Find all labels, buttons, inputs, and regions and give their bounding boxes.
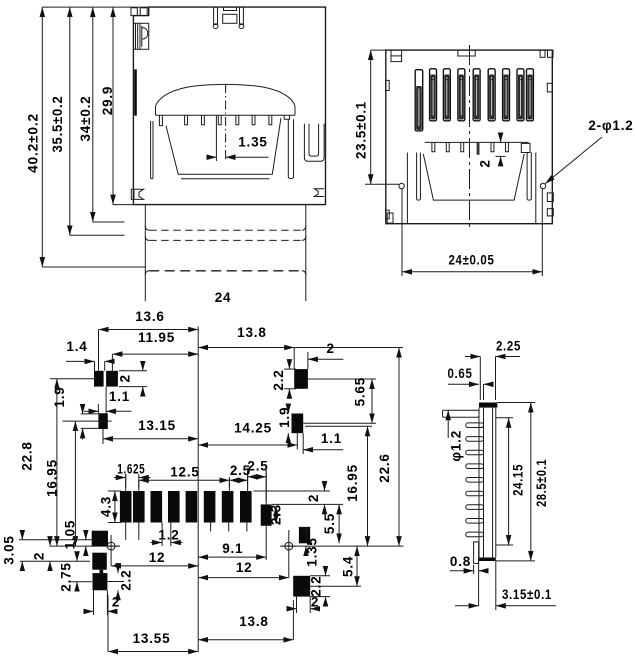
dim 2 bottom right: [288, 595, 319, 614]
pad MR-B: [293, 576, 310, 597]
dim 5.5: [322, 504, 339, 543]
slot teeth: [185, 115, 272, 125]
svg-text:24.15: 24.15: [511, 464, 526, 496]
svg-text:24: 24: [215, 290, 232, 305]
dim 0.65: [448, 366, 492, 400]
rear view outline: [386, 50, 553, 224]
pad row extension stubs: [126, 468, 267, 540]
svg-text:23.5±0.1: 23.5±0.1: [353, 101, 368, 159]
rear view contact slots (9): [415, 69, 533, 131]
card slot top line: [156, 114, 296, 116]
svg-text:24±0.05: 24±0.05: [449, 253, 495, 268]
svg-text:2: 2: [326, 341, 334, 356]
svg-text:2.3: 2.3: [269, 504, 284, 525]
dim 1.625: [114, 462, 151, 489]
rear view left edge bumps: [386, 80, 389, 218]
svg-text:1.9: 1.9: [52, 386, 67, 407]
svg-text:34±0.2: 34±0.2: [78, 96, 93, 142]
dim 0.8: [450, 554, 487, 574]
footprint datum centerline: [197, 327, 199, 653]
svg-text:2.75: 2.75: [59, 562, 74, 591]
pad MR-A: [299, 527, 310, 543]
dim 3.15±0.1: [455, 587, 556, 606]
dim 35.5±0.2: [50, 7, 125, 235]
rear view top-left step: [391, 50, 402, 62]
svg-text:13.6: 13.6: [135, 309, 164, 324]
svg-text:2: 2: [118, 374, 133, 382]
svg-text:1.2: 1.2: [158, 528, 179, 543]
svg-text:1.35: 1.35: [305, 537, 320, 566]
svg-text:2-φ1.2: 2-φ1.2: [588, 118, 633, 133]
rear card opening band with teeth: [425, 142, 530, 154]
dim 16.95 right: [305, 426, 372, 546]
dome arch: [156, 84, 296, 115]
rear view right edge bumps: [547, 83, 553, 216]
svg-text:13.8: 13.8: [237, 325, 266, 340]
right locating hole crosshair: [281, 530, 297, 550]
side view top tab: [443, 410, 480, 417]
dim 2 top right: [308, 341, 343, 369]
dim 12 left: [111, 550, 198, 566]
svg-text:2.25: 2.25: [496, 339, 521, 354]
dim 1.1 left: [84, 387, 132, 416]
left pads column P1 P2 P3: [92, 531, 108, 591]
dim 9.1: [198, 526, 266, 560]
svg-text:4.3: 4.3: [99, 496, 114, 517]
svg-text:1.1: 1.1: [321, 431, 342, 446]
svg-text:13.55: 13.55: [133, 631, 171, 646]
dim 24 (card width): [215, 290, 232, 305]
dim 16.95 left: [44, 421, 111, 546]
rear view top notch: [458, 50, 475, 56]
bottom-left corner clip: [131, 189, 143, 199]
dim 24±0.05: [402, 189, 542, 276]
svg-text:28.5±0.1: 28.5±0.1: [534, 459, 549, 507]
dim 13.6: [99, 309, 199, 371]
dim 2 left (hole row to P2 row): [32, 538, 51, 571]
svg-text:1.625: 1.625: [117, 462, 145, 477]
dim 1.05: [63, 520, 86, 555]
svg-text:1.4: 1.4: [66, 339, 87, 354]
dim 2 right mid: [253, 483, 343, 514]
svg-text:2: 2: [478, 159, 493, 167]
hole right (rear): [540, 183, 545, 188]
rear centerline: [469, 45, 471, 229]
svg-text:1.1: 1.1: [109, 389, 130, 404]
svg-text:12: 12: [236, 560, 253, 575]
dim 2.75: [59, 553, 93, 592]
rear view top-right tabs: [540, 50, 553, 57]
dim 24.15: [496, 418, 526, 545]
right U-slot feature: [304, 124, 324, 161]
left edge thick bar: [134, 69, 137, 115]
dim 2.5 a: [229, 463, 251, 488]
dim 12.5: [139, 465, 230, 489]
rear inner walls: [407, 153, 535, 224]
svg-text:40.2±0.2: 40.2±0.2: [25, 113, 40, 173]
top latch detail: [213, 7, 244, 29]
center pad row (8 pads): [120, 491, 252, 523]
side view bottom peg: [474, 542, 479, 564]
dim 2.5 b: [247, 459, 268, 501]
svg-text:14.25: 14.25: [234, 421, 272, 436]
footprint hole row line: [50, 545, 404, 547]
bottom-right corner clip: [314, 189, 324, 197]
svg-text:2: 2: [112, 595, 120, 610]
rear trapezoid bars: [417, 153, 532, 201]
dim 1.35 right: [305, 529, 320, 567]
rear view bottom-left foot: [387, 213, 393, 223]
dim 22.8: [20, 379, 94, 546]
svg-text:φ1.2: φ1.2: [449, 430, 464, 462]
front view outline: [133, 7, 325, 205]
svg-text:16.95: 16.95: [44, 459, 59, 497]
dim 34±0.2: [78, 7, 125, 222]
dim 22.6: [377, 348, 399, 547]
label 2-φ1.2 with leader: [545, 118, 633, 184]
dim 14.25: [198, 421, 297, 450]
svg-text:5.5: 5.5: [322, 513, 337, 534]
hole left (rear): [399, 183, 404, 188]
dim 1.4: [66, 339, 113, 371]
svg-text:35.5±0.2: 35.5±0.2: [50, 96, 65, 153]
svg-text:9.1: 9.1: [222, 541, 243, 556]
pad T1R: [294, 369, 308, 389]
dim 3.05: [2, 531, 91, 571]
svg-text:5.65: 5.65: [353, 377, 368, 406]
left locating hole crosshair: [104, 535, 120, 566]
dim 5.4: [310, 546, 361, 586]
svg-text:2.5: 2.5: [247, 459, 268, 474]
svg-text:3.05: 3.05: [2, 535, 17, 564]
dim 2.25: [465, 339, 521, 401]
svg-text:22.8: 22.8: [20, 441, 35, 470]
dim 13.8 top: [198, 325, 403, 369]
dim 4.3: [99, 491, 121, 523]
dim 12 right: [198, 546, 289, 578]
pad T2R: [292, 414, 304, 434]
footprint pad row line A (pad1 row): [19, 539, 92, 541]
svg-text:2.2: 2.2: [271, 369, 286, 390]
svg-text:2: 2: [306, 494, 321, 502]
svg-text:16.95: 16.95: [345, 464, 360, 502]
card trapezoid: [166, 118, 281, 179]
svg-text:2: 2: [32, 552, 47, 560]
dim 40.2±0.2: [25, 7, 149, 267]
left slot wall: [151, 115, 163, 179]
svg-text:3.15±0.1: 3.15±0.1: [502, 587, 552, 602]
svg-text:13.15: 13.15: [138, 418, 176, 433]
side view bottom band: [479, 558, 496, 562]
dim 13.55: [108, 595, 198, 652]
svg-text:29.9: 29.9: [100, 86, 115, 115]
dim 2.2 left: [107, 565, 133, 600]
dim 1.9 right: [277, 405, 292, 443]
side view tail: [479, 561, 496, 610]
svg-text:11.95: 11.95: [138, 330, 175, 345]
svg-text:12: 12: [149, 550, 166, 565]
dim 1.35 centerline: [207, 84, 269, 162]
svg-text:5.4: 5.4: [340, 556, 355, 577]
dim 1.9 left: [52, 386, 100, 439]
side view body walls: [479, 408, 496, 558]
dim φ1.2: [448, 410, 463, 461]
dim 2.2 top right: [271, 360, 296, 397]
write-protect switch detail: [134, 23, 149, 49]
svg-text:13.8: 13.8: [239, 614, 268, 629]
dim 2 (pad T1L height): [118, 362, 148, 395]
svg-text:1.9: 1.9: [277, 407, 292, 428]
dim 29.9: [100, 7, 133, 205]
dim 28.5±0.1: [496, 403, 549, 561]
dim 5.65: [303, 377, 376, 423]
pad T2L: [98, 413, 107, 429]
side view contact nubs (9): [466, 423, 484, 537]
dim 11.95: [112, 330, 198, 371]
svg-text:2: 2: [311, 595, 319, 610]
dim 1.1 right: [303, 431, 343, 454]
dim 2 (rear tooth depth): [478, 134, 506, 168]
dim 13.15: [103, 418, 198, 444]
dim 2 bottom left: [85, 590, 120, 615]
right slot wall: [284, 115, 293, 178]
pad T1L (two cells): [94, 371, 118, 387]
svg-text:12.5: 12.5: [170, 465, 199, 480]
svg-text:1.35: 1.35: [238, 134, 267, 149]
svg-text:22.6: 22.6: [377, 453, 392, 482]
rear card trapezoid: [423, 154, 524, 200]
side view top cap: [479, 403, 497, 408]
dim 1.2: [151, 523, 183, 547]
svg-text:1.05: 1.05: [63, 520, 78, 549]
svg-text:0.65: 0.65: [448, 366, 473, 381]
dim 23.5±0.1: [353, 50, 399, 184]
card protruding below (dashed): [145, 205, 305, 301]
dim 13.8 bottom: [198, 600, 293, 640]
svg-text:2.2: 2.2: [119, 570, 134, 591]
dim 2.2 bottom right: [308, 567, 330, 605]
pad 9 (offset): [261, 504, 272, 525]
dim 2.3 (pad9): [269, 504, 284, 525]
front view top-left tabs: [131, 8, 147, 16]
svg-text:0.8: 0.8: [450, 554, 471, 569]
